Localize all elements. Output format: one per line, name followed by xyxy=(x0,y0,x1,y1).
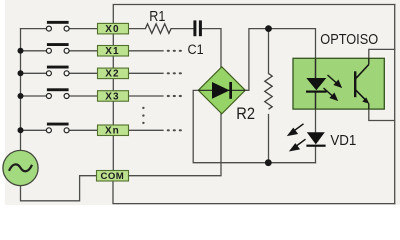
wire: C1 to bridge top xyxy=(202,29,222,68)
resistor R1 xyxy=(145,8,171,33)
dotted continuation row4 xyxy=(167,95,182,97)
wire: row2 switch to X1 xyxy=(69,50,97,52)
node: bus junction row2 xyxy=(18,48,24,54)
svg-text:C1: C1 xyxy=(188,41,204,57)
svg-text:OPTOISO: OPTOISO xyxy=(320,30,378,47)
wire: COM right to bridge bottom xyxy=(129,114,222,176)
wire: row3 switch to X2 xyxy=(69,72,97,74)
svg-text:X3: X3 xyxy=(105,91,119,102)
wire: row2 left lead xyxy=(21,50,47,52)
wire: X3-Xn link xyxy=(112,101,114,125)
wire: left supply bus xyxy=(20,29,22,151)
switch S3 xyxy=(46,88,69,98)
resistor R2 xyxy=(236,74,272,124)
wire: row3 left lead xyxy=(21,72,47,74)
svg-text:X2: X2 xyxy=(105,69,119,80)
wire: opto collector out to right rail xyxy=(369,49,395,58)
wire: row3 stub right of X2 xyxy=(129,72,164,74)
svg-text:VD1: VD1 xyxy=(330,133,356,150)
wire: opto emitter out to right rail xyxy=(369,109,395,120)
wire: top rail from above X0 to right side xyxy=(113,5,394,24)
VD1 light arrows xyxy=(289,124,306,151)
AC source G1 xyxy=(3,150,38,185)
node: R2 bottom junction xyxy=(265,159,272,166)
svg-text:X1: X1 xyxy=(105,46,119,57)
terminal box Xn xyxy=(98,125,129,137)
wire: X1-X2 link xyxy=(112,56,114,68)
svg-text:COM: COM xyxy=(101,171,125,182)
wire: R2 top lead xyxy=(268,29,270,74)
switch S1 xyxy=(46,43,69,53)
wire: VD1 top lead from optocoupler xyxy=(315,92,317,132)
node: bus junction row3 xyxy=(18,70,24,76)
wire: right side vertical rail xyxy=(394,5,396,204)
opto phototransistor xyxy=(354,58,369,109)
vertical ellipsis between X3 and Xn xyxy=(142,107,144,124)
wire: row2 stub right of X1 xyxy=(129,50,164,52)
terminal box X0 xyxy=(98,23,129,35)
wire: AC source bottom to COM left xyxy=(21,176,97,201)
wire: row4 stub right of X3 xyxy=(129,95,164,97)
switch S2 xyxy=(46,66,69,76)
switch S0 xyxy=(46,21,69,31)
wire: bridge left corner to lower rail to VD1 xyxy=(193,90,315,162)
wire: VD1 bottom lead xyxy=(315,147,317,163)
wire: row1 switch to X0 xyxy=(69,28,97,30)
bridge diode xyxy=(212,82,230,99)
dotted continuation row2 xyxy=(167,50,182,52)
wire: row1 left lead xyxy=(21,28,47,30)
wire: row4 left lead xyxy=(21,95,47,97)
wire: row5 left lead xyxy=(21,129,47,131)
dotted continuation row3 xyxy=(167,72,182,74)
wire: X2-X3 link xyxy=(112,79,114,91)
svg-text:R1: R1 xyxy=(149,8,165,24)
svg-text:X0: X0 xyxy=(105,24,119,35)
terminal box X1 xyxy=(98,46,129,58)
bridge rectifier diamond xyxy=(198,67,245,114)
opto LED xyxy=(306,59,327,109)
node: bus junction row5 xyxy=(18,127,24,133)
terminal box X2 xyxy=(98,68,129,80)
wire: X0 to R1 xyxy=(129,28,146,30)
wire: bottom rail from right side to COM bottom xyxy=(113,181,395,204)
LED VD1 xyxy=(306,132,356,149)
opto light arrows xyxy=(324,75,341,100)
switch Sn xyxy=(46,123,69,133)
wire: bridge right corner up to top node xyxy=(245,29,315,91)
wire: Xn-COM link xyxy=(112,136,114,171)
terminal box COM xyxy=(97,171,129,183)
wire: R1 to C1 xyxy=(171,28,193,30)
svg-text:Xn: Xn xyxy=(105,126,120,137)
dotted continuation row5 xyxy=(167,129,182,131)
wire: row5 stub right of Xn xyxy=(129,129,164,131)
node: bus junction row4 xyxy=(18,93,24,99)
wire: X0-X1 link xyxy=(112,34,114,46)
wire: R2 bottom lead xyxy=(268,115,270,163)
svg-text:R2: R2 xyxy=(236,106,255,124)
capacitor C1 xyxy=(188,20,204,57)
wire: row5 switch to Xn xyxy=(69,129,97,131)
optocoupler U1 box xyxy=(293,30,384,109)
node: R2 top junction xyxy=(265,25,272,32)
wire: row4 switch to X3 xyxy=(69,95,97,97)
terminal box X3 xyxy=(98,91,129,103)
